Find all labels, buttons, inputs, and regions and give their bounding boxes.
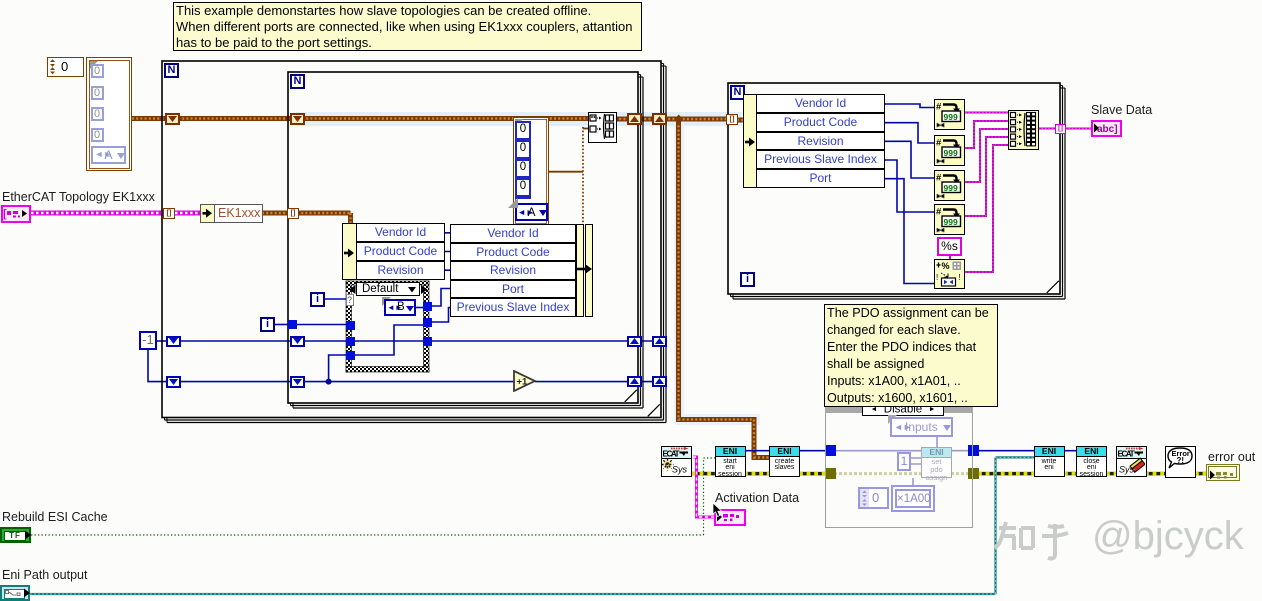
wire: case R3 to right SRs upper (430, 340, 666, 342)
wire: case straight-through (L2-R3) (353, 340, 424, 342)
wire: %s constant to format node (949, 255, 951, 260)
junction on topology wire (674, 115, 683, 124)
wire: outer i terminal to inner loop tunnel (275, 324, 291, 326)
ECAT Sys open node (661, 446, 692, 477)
shift register right upper (outer) (652, 336, 667, 348)
wire: inner i terminal to case ? node (325, 298, 348, 300)
error wire: close to ECAT Sys (1106, 472, 1117, 476)
svg-text:+1: +1 (517, 377, 529, 388)
case tunnel L2 (346, 337, 355, 346)
number to decimal string 3 (934, 170, 965, 201)
svg-text:999: 999 (944, 148, 958, 158)
wire: -1 constant to outer SR upper (157, 340, 168, 342)
wire: format-into-string to concatenate (965, 145, 1009, 272)
label: Activation Data (715, 491, 799, 505)
wire: unbundle rows to bundle rows (445, 233, 451, 270)
diagram disable structure (825, 406, 973, 528)
label: Rebuild ESI Cache (2, 510, 108, 524)
ECAT Sys close node (1116, 446, 1147, 477)
right For loop (slave data formatting) (728, 83, 1060, 294)
label: error out (1208, 450, 1255, 464)
wire: Previous Slave Index to to-string 4 (885, 160, 935, 212)
wire: Port to format-into-string (885, 179, 935, 284)
unbundle by name (right loop): Vendor Id/Product Code/Revision/Previous Slave Index/Port (743, 94, 757, 188)
svg-text:999: 999 (944, 183, 958, 193)
svg-text:?!: ?! (1177, 456, 1185, 465)
wire: start session to create slaves (745, 450, 770, 452)
tunnel: outer loop topology input (163, 208, 175, 219)
svg-text:!: ! (936, 273, 938, 282)
tunnel: disable structure right (error) (968, 468, 979, 479)
error wire: write to close (1064, 472, 1077, 476)
inner loop count terminal N (290, 74, 305, 89)
shift register left (outer, topology) (165, 113, 180, 125)
disable structure selector "Disable" (862, 403, 944, 416)
wire: case R2 to bundle Previous Slave Index row (430, 308, 451, 323)
outer loop iteration terminal i (260, 317, 275, 332)
wire: tunnel to case L1 (297, 324, 347, 326)
wire: tunnel to Slave Data indicator (1065, 128, 1092, 130)
number to decimal string 1 (934, 99, 965, 130)
case tunnel R1 (423, 302, 432, 311)
case tunnel L1 (346, 321, 355, 330)
shift register left (inner, topology) (290, 113, 305, 125)
constant 1 (disabled) (897, 452, 911, 471)
wire: Rebuild ESI Cache boolean (31, 458, 715, 535)
case tunnel R2 (423, 318, 432, 327)
label: EtherCAT Topology EK1xxx (2, 190, 155, 204)
case selector ? terminal (346, 294, 354, 306)
selection halo around topology wire (296, 112, 742, 126)
wire: junction to right For-loop tunnel (679, 117, 728, 122)
outer loop count terminal N (164, 63, 179, 78)
shift register left upper (outer, index) (166, 336, 181, 348)
wire: Revision to to-string 3 (885, 141, 935, 178)
tunnel: right loop string output (1055, 124, 1066, 134)
format into string node (934, 259, 965, 289)
wire: to-string 1 to concatenate (965, 112, 1009, 114)
number to decimal string 2 (934, 135, 965, 166)
wire: tunnel to EK1xxx bundle constant (175, 211, 201, 216)
ring constant B (382, 297, 391, 306)
watermark (992, 520, 1262, 570)
label: Slave Data (1091, 103, 1152, 117)
array index control of topology array constant (47, 57, 84, 77)
concatenate strings node (1008, 110, 1039, 150)
right loop iteration terminal i (740, 272, 755, 287)
ENI set pdo assign node (disabled) (921, 447, 952, 478)
svg-text:%: % (942, 261, 950, 271)
comment: PDO assignment (824, 304, 998, 407)
error wire: create to disable struct (799, 472, 826, 476)
case tunnel R3 (423, 337, 432, 346)
svg-text:!: ! (959, 273, 961, 282)
wire: to-string 3 to concatenate (965, 129, 1009, 182)
control: Activation Data (cluster) (714, 509, 746, 526)
indicator: error out cluster (1206, 464, 1240, 481)
indicator: Slave Data (string array) (1091, 120, 1122, 137)
wire: EtherCAT Topology control to outer loop tunnel (31, 211, 164, 216)
simple error handler node (1165, 446, 1196, 478)
array element x1A00 (disabled) (891, 485, 935, 512)
error wire: ECAT Sys to start session (692, 472, 716, 476)
wire: SR chain lower to +1 (178, 381, 515, 383)
shift register right upper (inner) (627, 336, 642, 348)
error wire: disable struct to write eni (978, 472, 1035, 476)
right loop count terminal N (730, 85, 745, 100)
wire: SR chain upper into case (178, 340, 347, 342)
svg-text:ECAT: ECAT (663, 450, 680, 459)
bundle by name: Vendor Id / Product Code / Revision / Port / Previous Slave Index (450, 224, 576, 243)
svg-text:Sys: Sys (1119, 465, 1135, 475)
ENI write eni node (1034, 446, 1065, 477)
wire: into build icon lower input (583, 128, 588, 130)
constant -1 (139, 331, 157, 350)
svg-text:#: # (936, 206, 942, 217)
svg-text:#: # (936, 172, 942, 183)
wire: bundle output up to build icon (dotted) (582, 127, 584, 224)
inner loop iteration terminal i (310, 292, 325, 307)
shift register right (outer, topology) (652, 113, 667, 125)
wire: branch up into case L3 tunnel (329, 355, 347, 382)
svg-text:#: # (936, 138, 942, 149)
wire: -1 constant to outer SR lower (148, 350, 168, 382)
tunnel: disable structure right (session) (968, 445, 979, 456)
enum constant Inputs (disabled) (888, 415, 897, 424)
error wire: start to create (744, 472, 770, 476)
shift register left lower (outer) (166, 376, 181, 388)
wire: EK1xxx output to inner loop tunnel (262, 211, 288, 216)
wire: icon to right shift registers (615, 117, 680, 122)
tunnel: i into inner loop (288, 320, 297, 329)
ENI start eni session node (715, 446, 746, 477)
%s format string constant (937, 237, 962, 256)
svg-text:999: 999 (944, 112, 958, 122)
port array constant inside inner loop (513, 117, 549, 226)
tunnel: right loop cluster input (726, 114, 738, 125)
shift register right (inner, topology) (627, 113, 642, 125)
wire: case interior L3 to R2 (353, 325, 424, 355)
wire: Vendor Id to to-string 1 (885, 104, 935, 108)
svg-text:999: 999 (944, 217, 958, 227)
inner For loop (288, 72, 638, 403)
wire: tunnel into unbundle strip (737, 118, 745, 123)
control: EtherCAT Topology EK1xxx (array of clusters) (1, 205, 31, 223)
wire: concatenate to loop tunnel (1038, 128, 1057, 130)
svg-text:[: [ (3, 208, 7, 220)
wire: outer SR to inner SR (178, 116, 292, 121)
wire: Activation Data control (693, 457, 715, 517)
label: Eni Path output (2, 568, 87, 582)
wire: disable structure to write eni (978, 450, 1035, 452)
error wire: ECAT Sys to error handler (1145, 472, 1166, 476)
case selector "Default" (356, 282, 420, 296)
svg-text:Sys: Sys (672, 465, 688, 475)
increment +1 node (513, 370, 537, 392)
outer For loop (162, 61, 661, 418)
wire: mid array output (549, 171, 583, 173)
tunnel: inner loop topology input (287, 208, 299, 219)
unbundle by name: Vendor Id / Product Code / Revision (342, 223, 357, 280)
shift register right lower (inner) (627, 376, 642, 388)
wire: inner SR to build-cluster-array icon (302, 116, 588, 121)
EK1xxx named constant (200, 204, 263, 223)
svg-text:abc]: abc] (1097, 124, 1118, 134)
control: Rebuild ESI Cache boolean TF (0, 527, 31, 543)
case tunnel L3 (346, 351, 355, 360)
comment: example description (173, 2, 642, 51)
indicator: Eni Path output (0, 585, 30, 601)
mouse cursor (712, 503, 723, 518)
tunnel: disable structure left (session) (825, 445, 836, 456)
wire: +1 to right SRs lower (535, 381, 666, 383)
wire: case R1 to bundle Port row (430, 289, 451, 307)
shift register left upper (inner, index) (290, 336, 305, 348)
wire: Eni path (30, 457, 1035, 594)
error wire: handler to error out (1195, 472, 1209, 476)
wire: tunnel to unbundle node (297, 213, 351, 224)
wire: to-string 4 to concatenate (965, 137, 1009, 216)
topology array constant (array of clusters) (86, 57, 132, 171)
tunnel: disable structure left (error) (825, 468, 836, 479)
number to decimal string 4 (934, 204, 965, 235)
wire: B selector to case R1 (416, 307, 424, 309)
wire: to-string 2 to concatenate (965, 121, 1009, 148)
wire: create slaves to disable structure (799, 450, 826, 452)
ENI create slaves node (769, 446, 800, 477)
shift register right lower (outer) (652, 376, 667, 388)
wire: write eni to close session (1064, 450, 1077, 452)
ENI close eni session node (1076, 446, 1107, 477)
svg-text:#: # (936, 102, 942, 113)
array index 0 (disabled) (858, 487, 889, 509)
shift register left lower (inner) (290, 376, 305, 388)
build cluster array node (588, 112, 617, 143)
svg-text:ECAT: ECAT (1118, 450, 1135, 459)
wire: topology array down to create-slaves node (679, 117, 771, 458)
wire: array constant to outer loop shift register (132, 116, 167, 121)
wire: Product Code to to-string 2 (885, 123, 935, 143)
